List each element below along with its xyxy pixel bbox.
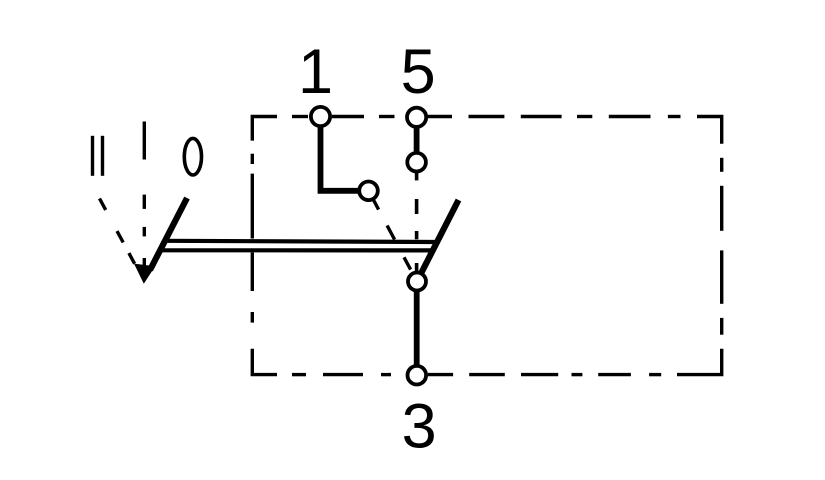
pivot contact circle xyxy=(408,273,426,291)
dashed line: alternate lever position through contact B xyxy=(415,172,419,271)
contact A circle (fixed contact of pole 1) xyxy=(359,182,378,201)
svg-text:5: 5 xyxy=(401,37,436,107)
svg-text:3: 3 xyxy=(402,392,437,462)
position label II xyxy=(93,136,103,176)
terminal 1 xyxy=(311,107,330,126)
switch lever (contact arm) xyxy=(422,200,459,273)
contact B circle (fixed contact of pole 5) xyxy=(407,153,426,172)
dashed line: alternate lever position through contact A xyxy=(373,199,411,270)
wire stub from terminal 5 to contact B xyxy=(414,126,420,153)
enclosure (dash-dot switch housing outline) xyxy=(252,117,721,375)
terminal 3 xyxy=(408,366,427,385)
wire from pivot contact to terminal 3 xyxy=(414,288,420,366)
terminal 5 xyxy=(407,108,426,127)
position line II (dashed diagonal) xyxy=(100,199,135,264)
position line I (dashed vertical) xyxy=(143,195,146,267)
position label 0 xyxy=(184,138,201,175)
wire from terminal 1 down and right to contact A xyxy=(321,126,363,191)
svg-text:1: 1 xyxy=(298,37,333,107)
position label I xyxy=(143,122,146,160)
actuator bar (double line) xyxy=(159,241,436,251)
external actuator lever with arrowhead xyxy=(150,198,187,270)
